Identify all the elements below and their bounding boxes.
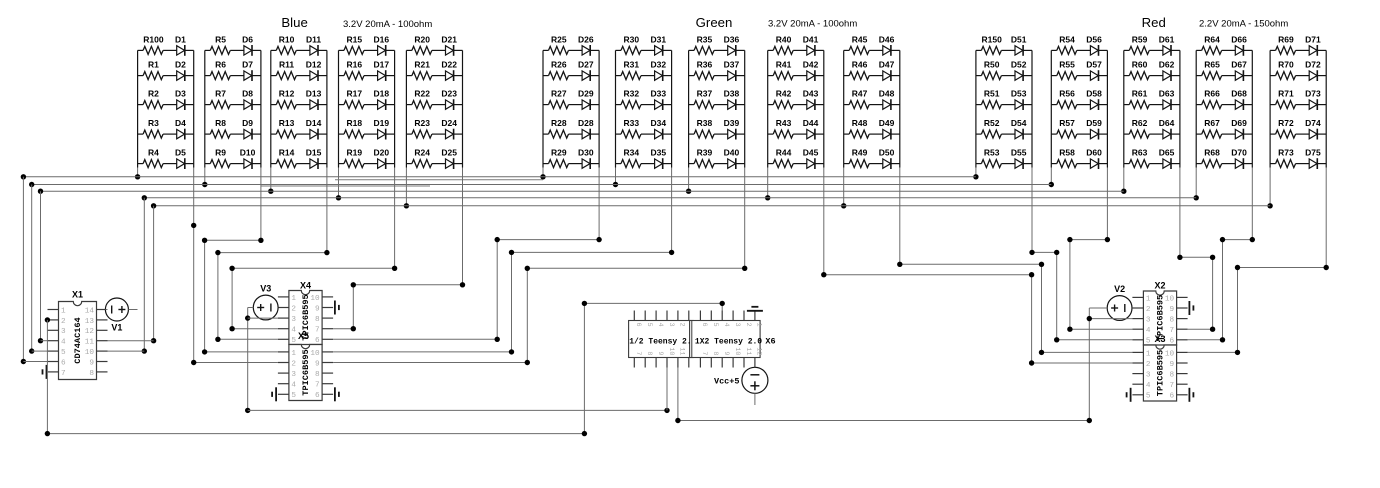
svg-text:2: 2 <box>744 323 752 327</box>
svg-text:D66: D66 <box>1231 34 1247 44</box>
svg-text:D13: D13 <box>306 89 322 99</box>
svg-text:D52: D52 <box>1011 60 1027 70</box>
svg-text:R45: R45 <box>852 34 868 44</box>
svg-text:R28: R28 <box>551 118 567 128</box>
svg-text:D44: D44 <box>803 118 819 128</box>
svg-text:D22: D22 <box>441 60 457 70</box>
svg-text:D1: D1 <box>175 34 186 44</box>
svg-text:R72: R72 <box>1278 118 1294 128</box>
svg-text:12: 12 <box>755 347 763 355</box>
svg-text:D24: D24 <box>441 118 457 128</box>
svg-text:D11: D11 <box>306 34 321 44</box>
svg-text:4: 4 <box>1146 382 1151 390</box>
svg-text:Vcc+5: Vcc+5 <box>714 376 740 386</box>
svg-text:2: 2 <box>1146 306 1151 314</box>
svg-text:D50: D50 <box>879 148 895 158</box>
svg-text:9: 9 <box>1169 306 1174 314</box>
svg-text:R22: R22 <box>414 89 430 99</box>
svg-text:5: 5 <box>61 349 66 357</box>
svg-text:1X2 Teensy 2.0: 1X2 Teensy 2.0 <box>695 337 762 346</box>
svg-text:R54: R54 <box>1059 34 1075 44</box>
svg-text:R57: R57 <box>1059 118 1075 128</box>
svg-text:X6: X6 <box>765 336 775 346</box>
svg-text:1/2 Teensy 2.: 1/2 Teensy 2. <box>629 337 691 346</box>
svg-text:12: 12 <box>85 328 95 336</box>
svg-text:D48: D48 <box>879 89 895 99</box>
svg-text:D32: D32 <box>651 60 667 70</box>
svg-text:R27: R27 <box>551 89 567 99</box>
svg-text:R24: R24 <box>414 148 430 158</box>
svg-text:2: 2 <box>678 323 686 327</box>
svg-text:TPIC6B595: TPIC6B595 <box>1156 350 1166 396</box>
svg-text:Red: Red <box>1142 15 1166 30</box>
svg-text:D28: D28 <box>578 118 594 128</box>
svg-text:R64: R64 <box>1204 34 1220 44</box>
svg-text:Green: Green <box>696 15 733 30</box>
svg-text:R40: R40 <box>776 34 792 44</box>
svg-text:8: 8 <box>89 370 94 378</box>
svg-text:R67: R67 <box>1204 118 1220 128</box>
svg-text:R2: R2 <box>148 89 159 99</box>
svg-text:D70: D70 <box>1231 148 1247 158</box>
svg-text:2: 2 <box>61 318 66 326</box>
svg-text:R42: R42 <box>776 89 792 99</box>
svg-text:R23: R23 <box>414 118 430 128</box>
svg-text:9: 9 <box>1169 361 1174 369</box>
svg-text:D30: D30 <box>578 148 594 158</box>
svg-text:R14: R14 <box>279 148 295 158</box>
svg-text:10: 10 <box>733 347 741 355</box>
svg-text:6: 6 <box>315 392 320 400</box>
svg-text:4: 4 <box>291 327 296 335</box>
svg-text:R19: R19 <box>347 148 363 158</box>
svg-text:7: 7 <box>1169 327 1174 335</box>
svg-text:D46: D46 <box>879 34 895 44</box>
svg-text:R35: R35 <box>697 34 713 44</box>
svg-text:D18: D18 <box>374 89 390 99</box>
svg-text:X3: X3 <box>1154 334 1165 344</box>
svg-text:11: 11 <box>85 339 95 347</box>
svg-text:10: 10 <box>310 295 320 303</box>
svg-text:V3: V3 <box>260 284 271 294</box>
svg-text:6: 6 <box>700 323 708 327</box>
svg-text:R17: R17 <box>347 89 363 99</box>
svg-text:R55: R55 <box>1059 60 1075 70</box>
svg-text:4: 4 <box>61 339 66 347</box>
svg-text:D34: D34 <box>651 118 667 128</box>
svg-text:2.2V 20mA - 150ohm: 2.2V 20mA - 150ohm <box>1199 19 1288 30</box>
svg-text:8: 8 <box>315 316 320 324</box>
svg-text:D56: D56 <box>1086 34 1102 44</box>
svg-text:TPIC6B595: TPIC6B595 <box>301 349 311 395</box>
svg-text:D19: D19 <box>374 118 390 128</box>
svg-text:D63: D63 <box>1159 89 1175 99</box>
svg-text:D60: D60 <box>1086 148 1102 158</box>
svg-text:11: 11 <box>678 347 686 355</box>
svg-text:R31: R31 <box>624 60 640 70</box>
svg-text:D74: D74 <box>1305 118 1321 128</box>
svg-text:3: 3 <box>291 371 296 379</box>
svg-text:D62: D62 <box>1159 60 1175 70</box>
svg-text:9: 9 <box>656 351 664 355</box>
svg-text:R20: R20 <box>414 34 430 44</box>
svg-text:9: 9 <box>315 305 320 313</box>
svg-text:4: 4 <box>656 323 664 327</box>
svg-text:5: 5 <box>711 323 719 327</box>
svg-text:D59: D59 <box>1086 118 1102 128</box>
svg-text:Blue: Blue <box>281 15 307 30</box>
svg-text:R38: R38 <box>697 118 713 128</box>
svg-text:D49: D49 <box>879 118 895 128</box>
svg-text:D10: D10 <box>240 148 256 158</box>
svg-text:1: 1 <box>1146 350 1151 358</box>
svg-text:D55: D55 <box>1011 148 1027 158</box>
svg-text:R6: R6 <box>215 60 226 70</box>
svg-text:D31: D31 <box>651 34 667 44</box>
svg-text:10: 10 <box>1165 295 1175 303</box>
svg-text:R69: R69 <box>1278 34 1294 44</box>
svg-text:2: 2 <box>291 360 296 368</box>
svg-text:4: 4 <box>291 382 296 390</box>
svg-text:D35: D35 <box>651 148 667 158</box>
svg-text:R53: R53 <box>984 148 1000 158</box>
svg-text:D25: D25 <box>441 148 457 158</box>
svg-text:D75: D75 <box>1305 148 1321 158</box>
svg-text:4: 4 <box>722 323 730 327</box>
svg-text:9: 9 <box>315 360 320 368</box>
svg-text:R33: R33 <box>624 118 640 128</box>
svg-text:D43: D43 <box>803 89 819 99</box>
svg-text:10: 10 <box>667 347 675 355</box>
svg-text:6: 6 <box>634 323 642 327</box>
svg-text:D61: D61 <box>1159 34 1175 44</box>
svg-text:6: 6 <box>61 359 66 367</box>
svg-text:D45: D45 <box>803 148 819 158</box>
svg-text:D72: D72 <box>1305 60 1321 70</box>
svg-text:3: 3 <box>1146 372 1151 380</box>
svg-text:2: 2 <box>291 305 296 313</box>
svg-text:7: 7 <box>315 327 320 335</box>
svg-text:D57: D57 <box>1086 60 1102 70</box>
svg-text:2: 2 <box>1146 361 1151 369</box>
svg-text:7: 7 <box>634 351 642 355</box>
svg-text:R7: R7 <box>215 89 226 99</box>
svg-text:D40: D40 <box>724 148 740 158</box>
svg-text:1: 1 <box>755 323 763 327</box>
svg-text:R15: R15 <box>347 34 363 44</box>
svg-text:R56: R56 <box>1059 89 1075 99</box>
svg-text:CD74AC164: CD74AC164 <box>73 317 83 363</box>
svg-text:X5: X5 <box>298 331 309 341</box>
svg-text:D69: D69 <box>1231 118 1247 128</box>
svg-text:3: 3 <box>667 323 675 327</box>
svg-text:D58: D58 <box>1086 89 1102 99</box>
svg-text:R52: R52 <box>984 118 1000 128</box>
svg-text:X1: X1 <box>72 290 83 300</box>
svg-text:R44: R44 <box>776 148 792 158</box>
svg-text:D2: D2 <box>175 60 186 70</box>
svg-text:R59: R59 <box>1132 34 1148 44</box>
svg-text:8: 8 <box>645 351 653 355</box>
svg-text:10: 10 <box>85 349 95 357</box>
svg-text:R66: R66 <box>1204 89 1220 99</box>
svg-text:D5: D5 <box>175 148 186 158</box>
svg-text:1: 1 <box>61 307 66 315</box>
svg-text:3: 3 <box>733 323 741 327</box>
svg-text:V1: V1 <box>111 323 122 333</box>
svg-text:R70: R70 <box>1278 60 1294 70</box>
svg-text:D21: D21 <box>441 34 457 44</box>
svg-text:D47: D47 <box>879 60 895 70</box>
svg-text:R37: R37 <box>697 89 713 99</box>
svg-text:1: 1 <box>291 350 296 358</box>
svg-text:10: 10 <box>310 350 320 358</box>
svg-text:D29: D29 <box>578 89 594 99</box>
svg-text:D42: D42 <box>803 60 819 70</box>
svg-text:X2: X2 <box>1154 281 1165 291</box>
svg-text:R47: R47 <box>852 89 868 99</box>
svg-text:D71: D71 <box>1305 34 1321 44</box>
svg-text:R50: R50 <box>984 60 1000 70</box>
svg-text:R16: R16 <box>347 60 363 70</box>
svg-text:D73: D73 <box>1305 89 1321 99</box>
svg-text:R10: R10 <box>279 34 295 44</box>
svg-text:D51: D51 <box>1011 34 1027 44</box>
svg-text:7: 7 <box>315 382 320 390</box>
svg-text:R65: R65 <box>1204 60 1220 70</box>
svg-text:13: 13 <box>85 318 95 326</box>
svg-text:D26: D26 <box>578 34 594 44</box>
svg-text:D8: D8 <box>242 89 253 99</box>
svg-text:R100: R100 <box>143 34 164 44</box>
svg-text:D17: D17 <box>374 60 390 70</box>
svg-text:R13: R13 <box>279 118 295 128</box>
svg-text:R29: R29 <box>551 148 567 158</box>
svg-text:5: 5 <box>645 323 653 327</box>
svg-text:R18: R18 <box>347 118 363 128</box>
svg-text:D38: D38 <box>724 89 740 99</box>
svg-text:R46: R46 <box>852 60 868 70</box>
svg-text:14: 14 <box>85 307 95 315</box>
svg-text:D3: D3 <box>175 89 186 99</box>
svg-text:X4: X4 <box>300 281 311 291</box>
svg-text:R4: R4 <box>148 148 159 158</box>
svg-text:D65: D65 <box>1159 148 1175 158</box>
svg-text:D12: D12 <box>306 60 322 70</box>
svg-text:D64: D64 <box>1159 118 1175 128</box>
svg-text:D9: D9 <box>242 118 253 128</box>
svg-text:R36: R36 <box>697 60 713 70</box>
svg-text:R39: R39 <box>697 148 713 158</box>
svg-text:9: 9 <box>89 359 94 367</box>
svg-text:D39: D39 <box>724 118 740 128</box>
svg-text:6: 6 <box>1169 393 1174 401</box>
svg-text:7: 7 <box>61 370 66 378</box>
svg-text:R25: R25 <box>551 34 567 44</box>
svg-text:3.2V 20mA - 100ohm: 3.2V 20mA - 100ohm <box>343 19 432 30</box>
svg-text:R34: R34 <box>624 148 640 158</box>
svg-text:8: 8 <box>1169 317 1174 325</box>
svg-text:D67: D67 <box>1231 60 1247 70</box>
svg-text:D33: D33 <box>651 89 667 99</box>
svg-text:D27: D27 <box>578 60 594 70</box>
svg-text:R1: R1 <box>148 60 159 70</box>
svg-text:R48: R48 <box>852 118 868 128</box>
svg-text:11: 11 <box>744 347 752 355</box>
svg-text:R61: R61 <box>1132 89 1148 99</box>
svg-text:D7: D7 <box>242 60 253 70</box>
svg-text:8: 8 <box>315 371 320 379</box>
svg-text:R49: R49 <box>852 148 868 158</box>
svg-text:R62: R62 <box>1132 118 1148 128</box>
svg-text:R26: R26 <box>551 60 567 70</box>
svg-text:R60: R60 <box>1132 60 1148 70</box>
svg-text:R51: R51 <box>984 89 1000 99</box>
svg-text:5: 5 <box>291 392 296 400</box>
svg-text:V2: V2 <box>1114 284 1125 294</box>
svg-text:D37: D37 <box>724 60 740 70</box>
svg-text:7: 7 <box>700 351 708 355</box>
svg-text:3: 3 <box>291 316 296 324</box>
svg-text:D36: D36 <box>724 34 740 44</box>
svg-text:R41: R41 <box>776 60 792 70</box>
svg-text:D54: D54 <box>1011 118 1027 128</box>
svg-text:D68: D68 <box>1231 89 1247 99</box>
svg-text:D6: D6 <box>242 34 253 44</box>
svg-text:R32: R32 <box>624 89 640 99</box>
svg-text:D23: D23 <box>441 89 457 99</box>
svg-text:R3: R3 <box>148 118 159 128</box>
svg-text:R63: R63 <box>1132 148 1148 158</box>
svg-text:R71: R71 <box>1278 89 1294 99</box>
svg-text:R9: R9 <box>215 148 226 158</box>
svg-text:3: 3 <box>1146 317 1151 325</box>
svg-text:8: 8 <box>711 351 719 355</box>
svg-text:8: 8 <box>1169 372 1174 380</box>
svg-text:D14: D14 <box>306 118 322 128</box>
svg-text:R43: R43 <box>776 118 792 128</box>
svg-text:R11: R11 <box>279 60 294 70</box>
svg-text:4: 4 <box>1146 327 1151 335</box>
svg-text:1: 1 <box>1146 295 1151 303</box>
svg-text:R150: R150 <box>982 34 1003 44</box>
svg-text:D53: D53 <box>1011 89 1027 99</box>
svg-text:D15: D15 <box>306 148 322 158</box>
svg-text:D41: D41 <box>803 34 819 44</box>
svg-text:3: 3 <box>61 328 66 336</box>
svg-text:1: 1 <box>291 295 296 303</box>
svg-text:R73: R73 <box>1278 148 1294 158</box>
svg-text:D20: D20 <box>374 148 390 158</box>
svg-text:5: 5 <box>1146 393 1151 401</box>
svg-text:D16: D16 <box>374 34 390 44</box>
svg-text:D4: D4 <box>175 118 186 128</box>
svg-text:R5: R5 <box>215 34 226 44</box>
svg-text:3.2V 20mA - 100ohm: 3.2V 20mA - 100ohm <box>768 19 857 30</box>
svg-text:10: 10 <box>1165 350 1175 358</box>
svg-text:R8: R8 <box>215 118 226 128</box>
svg-text:R30: R30 <box>624 34 640 44</box>
svg-text:R12: R12 <box>279 89 295 99</box>
svg-text:R21: R21 <box>414 60 430 70</box>
svg-text:R58: R58 <box>1059 148 1075 158</box>
svg-text:R68: R68 <box>1204 148 1220 158</box>
svg-text:7: 7 <box>1169 382 1174 390</box>
svg-text:9: 9 <box>722 351 730 355</box>
